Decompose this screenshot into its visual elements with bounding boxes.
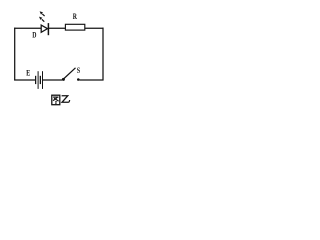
svg-text:R: R	[73, 11, 78, 21]
wire bottom-left segment	[14, 79, 35, 81]
wire bottom-middle segment	[43, 79, 62, 81]
svg-text:E: E	[26, 68, 30, 78]
wire top-middle segment	[48, 27, 65, 29]
battery E plate short 1	[35, 76, 36, 84]
diode D (LED) triangle	[41, 25, 47, 32]
diode D cathode bar	[47, 23, 49, 35]
battery E plate long 2	[42, 71, 43, 89]
caption character 乙	[62, 96, 70, 103]
svg-text:S: S	[77, 66, 81, 75]
wire top-left segment	[14, 27, 41, 29]
resistor R box	[65, 24, 84, 30]
battery E plate short 2	[40, 76, 41, 84]
light arrow 2	[39, 17, 44, 22]
wire right vertical	[102, 28, 104, 81]
switch S left contact dot	[62, 78, 65, 81]
switch S lever	[64, 68, 76, 79]
wire bottom-right segment	[80, 79, 104, 81]
switch S right contact dot	[77, 78, 80, 81]
caption character 图	[52, 95, 60, 105]
wire left vertical	[14, 28, 16, 81]
light arrow 1	[40, 11, 45, 16]
battery E plate long 1	[38, 71, 39, 89]
wire top-right segment	[85, 27, 104, 29]
svg-text:D: D	[32, 30, 36, 40]
